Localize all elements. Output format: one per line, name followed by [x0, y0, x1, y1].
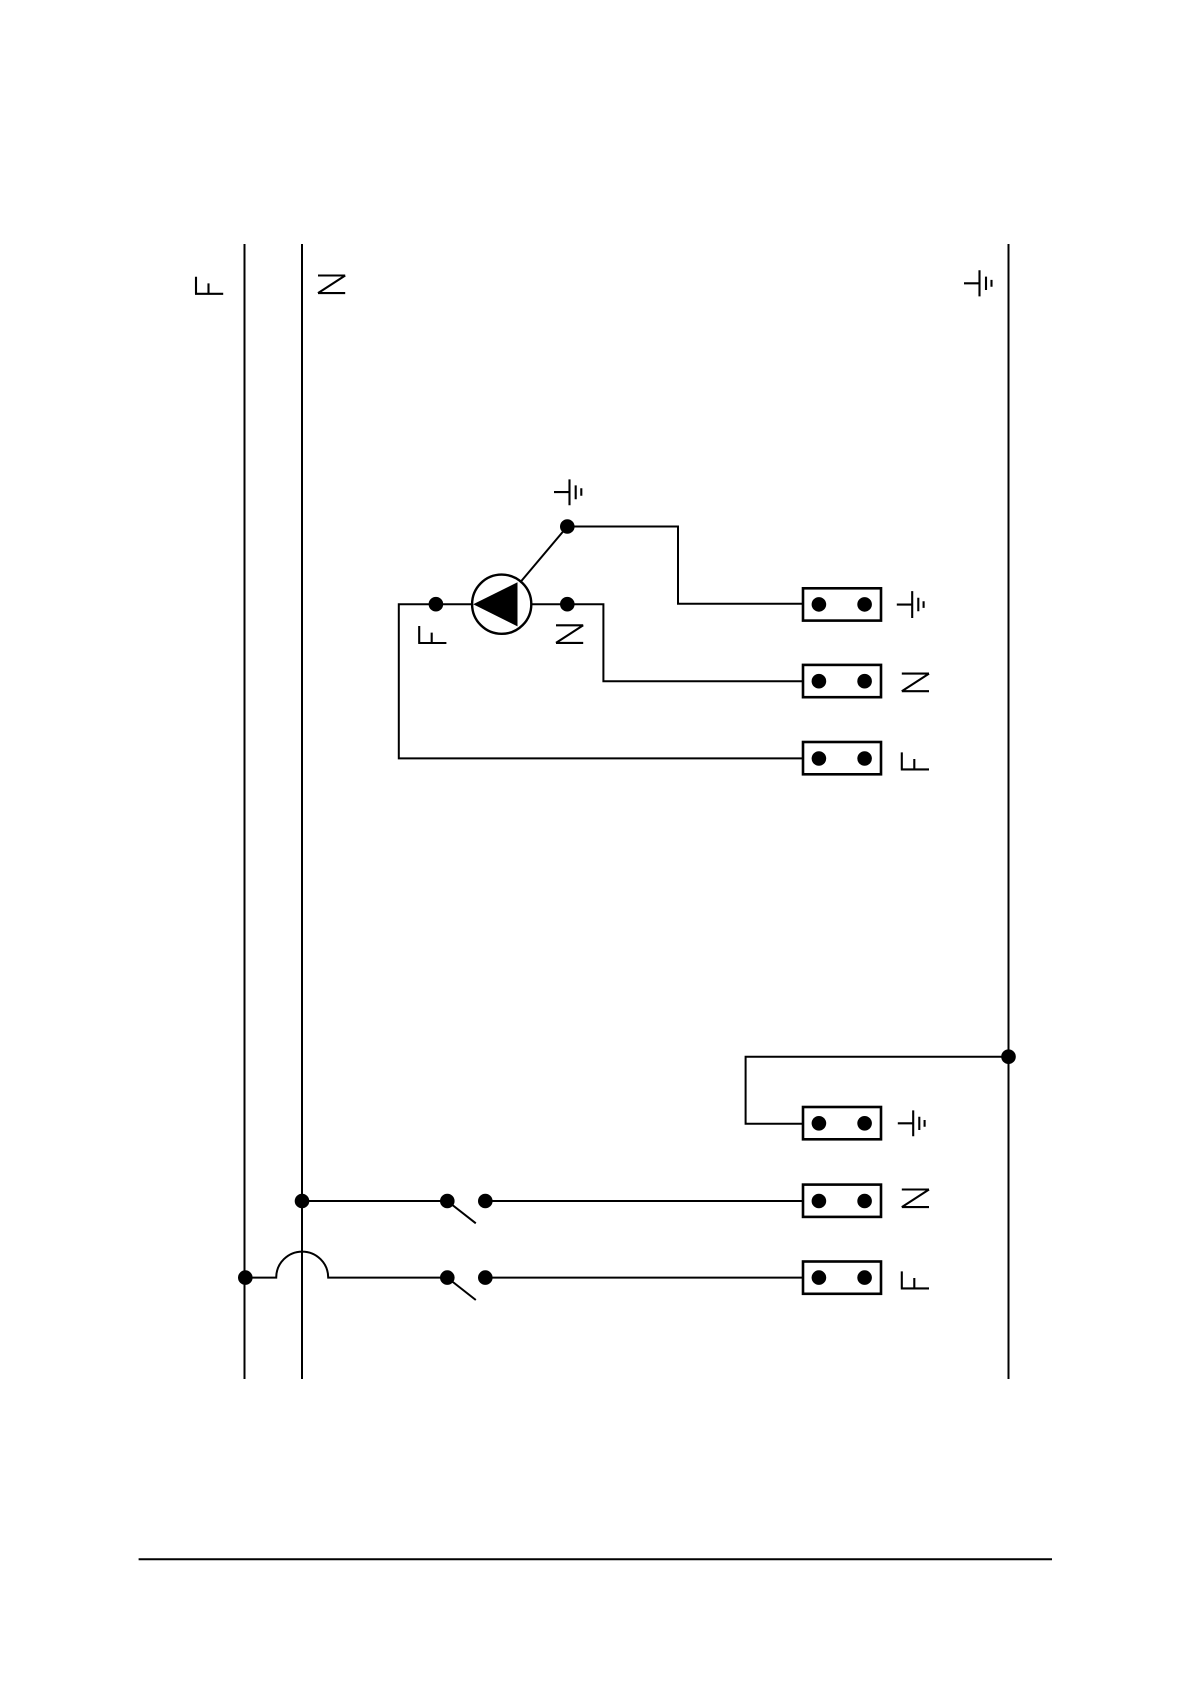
wire earth bus to bottom earth terminal block: [746, 1057, 1009, 1124]
terminal block earth (bottom) left pin: [812, 1116, 827, 1131]
terminal block earth (middle) right pin: [857, 597, 872, 612]
label F at bottom F block: [901, 1271, 929, 1288]
terminal block N (bottom) left pin: [812, 1194, 827, 1209]
wire pump N terminal to N terminal block: [531, 604, 803, 681]
label N at middle N block: [902, 674, 929, 692]
ground symbol above pump: [554, 479, 581, 505]
wire phase bus over neutral bus (crossover hump) to switch: [245, 1252, 447, 1278]
node pump N terminal: [560, 597, 575, 612]
switch S1 blade: [447, 1201, 476, 1223]
terminal block earth (middle) left pin: [812, 597, 827, 612]
pump motor triangle: [473, 582, 517, 626]
neutral bus line N (second vertical wire): [301, 244, 303, 1379]
terminal block N (bottom) right pin: [857, 1194, 872, 1209]
terminal block F (middle): [803, 742, 881, 774]
label N at bottom N block: [902, 1190, 929, 1208]
label F at pump: [418, 626, 446, 643]
footer rule: [139, 1558, 1052, 1560]
switch S2 pole node: [440, 1270, 455, 1285]
wire neutral bus to switch: [302, 1200, 447, 1202]
switch S2 throw node: [478, 1270, 493, 1285]
terminal block F (bottom): [803, 1262, 881, 1294]
earth bus line (right vertical wire): [1008, 244, 1010, 1379]
node pump earth terminal: [560, 519, 575, 534]
wire switch to F terminal block (bottom): [485, 1277, 803, 1279]
terminal block F (bottom) right pin: [857, 1270, 872, 1285]
label F for phase bus: [195, 277, 223, 294]
terminal block earth (bottom) right pin: [857, 1116, 872, 1131]
node junction on earth bus: [1001, 1049, 1016, 1064]
label N at pump: [556, 625, 583, 643]
ground symbol at bottom earth block: [898, 1110, 925, 1136]
wire pump earth terminal to earth terminal block: [567, 527, 803, 604]
terminal block F (middle) left pin: [812, 751, 827, 766]
pump motor circle: [472, 575, 531, 634]
wire pump earth diagonal: [521, 527, 568, 582]
terminal block N (middle): [803, 665, 881, 697]
ground symbol at top of earth bus: [964, 270, 992, 296]
terminal block N (middle) right pin: [857, 674, 872, 689]
switch S1 pole node: [440, 1194, 455, 1209]
label N for neutral bus: [318, 276, 345, 294]
terminal block earth (middle): [803, 588, 881, 620]
node junction on neutral bus: [295, 1194, 310, 1209]
wire pump F terminal to F terminal block: [399, 604, 803, 758]
terminal block F (bottom) left pin: [812, 1270, 827, 1285]
wire switch to N terminal block (bottom): [485, 1200, 803, 1202]
node tap on phase bus: [238, 1270, 253, 1285]
terminal block N (middle) left pin: [812, 674, 827, 689]
terminal block F (middle) right pin: [857, 751, 872, 766]
switch S2 blade: [447, 1278, 476, 1300]
node pump F terminal: [429, 597, 444, 612]
terminal block earth (bottom): [803, 1107, 881, 1139]
switch S1 throw node: [478, 1194, 493, 1209]
ground symbol at middle earth block: [897, 591, 924, 618]
label F at middle F block: [901, 752, 929, 769]
terminal block N (bottom): [803, 1185, 881, 1217]
phase bus line F (left vertical wire): [244, 244, 246, 1379]
